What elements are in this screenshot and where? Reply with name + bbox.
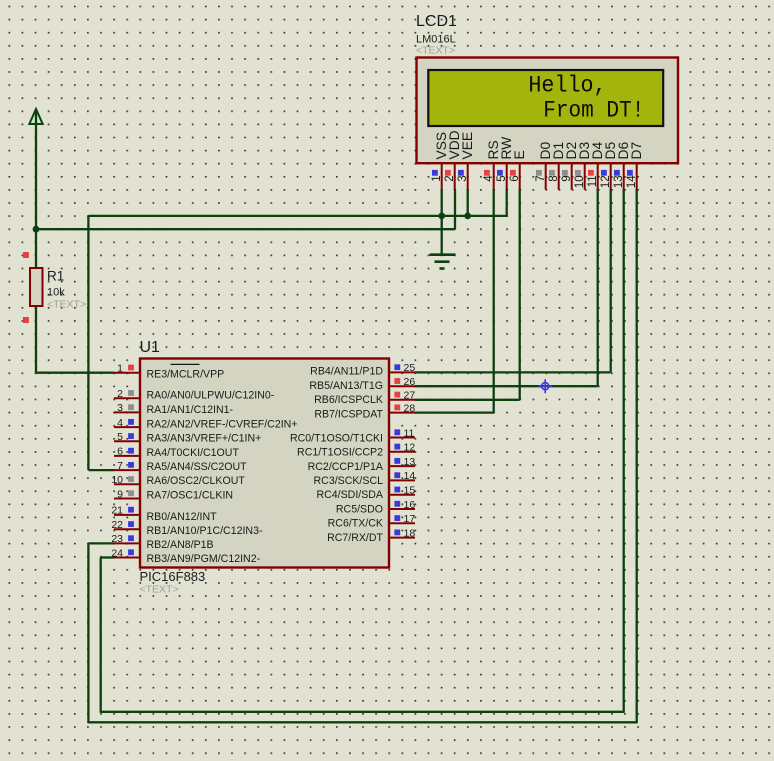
LCD1 pin 4 RS stub [493,163,495,190]
U1 pin 6 state square [128,448,134,454]
svg-text:D7: D7 [629,142,644,160]
svg-text:5: 5 [117,431,123,443]
U1 pin 4 stub (left) [114,426,140,428]
U1 pin 15 state square [394,487,400,493]
LCD1 screen [428,70,663,126]
svg-text:RA2/AN2/VREF-/CVREF/C2IN+: RA2/AN2/VREF-/CVREF/C2IN+ [147,418,298,430]
LCD1 pin 3 VEE stub [467,163,469,190]
svg-text:9: 9 [561,175,573,181]
wire LCD pin3 VEE down to ground rail [467,189,469,216]
svg-text:11: 11 [404,427,415,439]
wire R1 bottom to U1 pin1 (MCLR) [35,306,37,373]
LCD1 pin 9 state square [562,170,568,176]
svg-text:R1: R1 [47,269,64,284]
svg-text:23: 23 [111,533,123,545]
U1 pin 21 stub (left) [114,514,140,516]
svg-text:RC3/SCK/SCL: RC3/SCK/SCL [314,475,384,487]
svg-text:RC5/SDO: RC5/SDO [336,503,383,515]
LCD1 pin 11 state square [588,170,594,176]
U1 pin 11 stub (right) [389,437,415,439]
svg-text:10: 10 [111,474,123,486]
svg-text:12: 12 [600,175,612,188]
ground symbol [430,253,456,256]
LCD1 pin 5 state square [497,170,503,176]
svg-text:<TEXT>: <TEXT> [416,45,455,57]
LCD1 pin 2 VDD stub [454,163,456,190]
U1 pin 5 state square [128,433,134,439]
svg-text:RB0/AN12/INT: RB0/AN12/INT [147,511,218,523]
U1 pin 18 stub (right) [389,537,415,539]
U1 pin 25 stub (right) [389,371,415,373]
cursor crosshair marker [538,379,552,393]
wire LCD pin11 D4 to U1 pin26 RB5 [597,189,599,386]
svg-text:RA4/T0CKI/C1OUT: RA4/T0CKI/C1OUT [147,447,240,459]
wire VCC arrow down to R1 top [35,110,37,268]
svg-text:16: 16 [404,499,416,511]
svg-text:18: 18 [404,527,416,539]
wire LCD pin4 RS to U1 pin28 RB7 [493,189,495,413]
svg-text:26: 26 [404,376,416,388]
svg-text:25: 25 [404,362,416,374]
wire LCD pin14 D7 to U1 pin23 RB2 [636,189,638,722]
svg-text:RB6/ICSPCLK: RB6/ICSPCLK [314,394,383,406]
overline on MCLR of pin1 label [171,363,200,365]
U1 pin 2 stub (left) [114,397,140,399]
node junction VCC/VDD rail [33,226,40,233]
U1 pin 23 state square [128,535,134,541]
wire ground rail [88,215,507,217]
svg-text:RA6/OSC2/CLKOUT: RA6/OSC2/CLKOUT [147,475,246,487]
U1 pin 10 state square [128,476,134,482]
U1 pin 28 state square [394,405,400,411]
wire LCD pin1 VSS down to ground symbol [441,189,443,254]
U1 pin 7 stub (left) [114,469,140,471]
svg-text:RA5/AN4/SS/C2OUT: RA5/AN4/SS/C2OUT [147,461,248,473]
LCD1 pin 7 D0 stub [545,163,547,190]
U1 pin 24 stub (left) [114,557,140,559]
U1 pin 24 state square [128,549,134,555]
svg-text:12: 12 [404,442,416,454]
U1 PIC16F883 body [140,359,389,568]
U1 pin 1 stub (left) [114,372,140,374]
svg-text:RA1/AN1/C12IN1-: RA1/AN1/C12IN1- [147,404,234,416]
svg-text:U1: U1 [140,339,161,356]
svg-text:4: 4 [483,175,495,182]
svg-text:RC0/T1OSO/T1CKI: RC0/T1OSO/T1CKI [290,432,383,444]
U1 pin 12 state square [394,444,400,450]
LCD1 pin 13 D6 stub [623,163,625,190]
LCD1 pin 9 D2 stub [571,163,573,190]
U1 pin 2 state square [128,390,134,396]
svg-text:2: 2 [444,175,456,181]
U1 pin 26 state square [394,378,400,384]
svg-text:PIC16F883: PIC16F883 [140,569,206,584]
svg-text:13: 13 [404,456,416,468]
LCD1 pin 1 state square [432,170,438,176]
svg-text:8: 8 [548,175,560,181]
svg-text:17: 17 [404,513,416,525]
LCD1 pin 12 D5 stub [610,163,612,190]
svg-text:RA7/OSC1/CLKIN: RA7/OSC1/CLKIN [147,489,234,501]
LCD1 pin 13 state square [614,170,620,176]
svg-text:RE3/MCLR/VPP: RE3/MCLR/VPP [147,368,225,380]
svg-text:11: 11 [587,175,599,187]
LCD1 pin 8 state square [549,170,555,176]
LCD1 pin 1 VSS stub [441,163,443,190]
power arrow (VCC) [29,109,42,124]
svg-text:27: 27 [404,390,416,402]
svg-text:22: 22 [111,519,123,531]
U1 pin 3 state square [128,404,134,410]
U1 pin 15 stub (right) [389,494,415,496]
wire LCD pin12 D5 to U1 pin25 RB4 [610,189,612,372]
U1 pin 4 state square [128,419,134,425]
U1 pin 27 state square [394,392,400,398]
U1 pin 12 stub (right) [389,451,415,453]
LCD1 pin 6 E stub [519,163,521,190]
LCD1 component body [417,58,679,164]
U1 pin 23 stub (left) [114,542,140,544]
U1 pin 14 state square [394,472,400,478]
U1 pin 17 state square [394,515,400,521]
LCD1 pin 2 state square [445,170,451,176]
svg-text:7: 7 [117,460,123,472]
svg-text:9: 9 [117,488,123,500]
U1 pin 18 state square [394,530,400,536]
U1 pin 17 stub (right) [389,522,415,524]
svg-text:VEE: VEE [460,132,475,160]
svg-text:RA3/AN3/VREF+/C1IN+: RA3/AN3/VREF+/C1IN+ [147,433,262,445]
svg-text:10k: 10k [47,287,65,299]
U1 pin 9 state square [128,490,134,496]
svg-text:5: 5 [496,175,508,181]
LCD1 pin 14 state square [627,170,633,176]
svg-text:RC4/SDI/SDA: RC4/SDI/SDA [316,489,383,501]
svg-text:6: 6 [117,446,123,458]
U1 pin 22 stub (left) [114,528,140,530]
svg-text:RB4/AN11/P1D: RB4/AN11/P1D [310,366,383,378]
U1 pin 14 stub (right) [389,479,415,481]
U1 pin 13 stub (right) [389,465,415,467]
wire LCD pin6 E to U1 pin27 RB6 [519,189,521,400]
svg-text:1: 1 [431,175,443,181]
LCD1 pin 8 D1 stub [558,163,560,190]
LCD1 pin 3 state square [458,170,464,176]
svg-text:10: 10 [574,175,586,188]
svg-text:4: 4 [117,417,123,429]
U1 pin 6 stub (left) [114,455,140,457]
U1 pin 21 state square [128,507,134,513]
U1 pin 26 stub (right) [389,385,415,387]
LCD1 pin 4 state square [484,170,490,176]
U1 pin 11 state square [394,429,400,435]
svg-text:RC1/T1OSI/CCP2: RC1/T1OSI/CCP2 [297,447,383,459]
LCD1 pin 7 state square [536,170,542,176]
U1 pin 22 state square [128,521,134,527]
U1 pin 27 stub (right) [389,399,415,401]
LCD1 pin 10 state square [575,170,581,176]
svg-text:RB7/ICSPDAT: RB7/ICSPDAT [314,408,383,420]
svg-text:15: 15 [404,485,416,497]
svg-text:RC6/TX/CK: RC6/TX/CK [328,518,383,530]
wire LCD pin13 D6 to U1 pin24 RB3 [623,189,625,712]
U1 pin 16 state square [394,501,400,507]
resistor R1 terminal marker top [23,252,29,258]
U1 pin 7 state square [128,462,134,468]
svg-text:21: 21 [111,505,123,517]
LCD1 pin 11 D4 stub [597,163,599,190]
LCD1 pin 10 D3 stub [584,163,586,190]
U1 pin 10 stub (left) [114,483,140,485]
U1 pin 9 stub (left) [114,498,140,500]
wire VDD rail to LCD pin2 [35,228,455,230]
svg-text:<TEXT>: <TEXT> [140,584,179,596]
wire LCD pin5 RW down to ground rail [506,189,508,216]
svg-text:RB5/AN13/T1G: RB5/AN13/T1G [309,380,383,392]
U1 pin 13 state square [394,458,400,464]
resistor R1 terminal marker bottom [23,317,29,323]
U1 pin 28 stub (right) [389,412,415,414]
U1 pin 16 stub (right) [389,508,415,510]
svg-text:13: 13 [613,175,625,188]
svg-text:3: 3 [117,402,123,414]
wire ground rail to U1 pin7 RA5 [87,216,89,470]
svg-text:LCD1: LCD1 [416,13,457,30]
svg-text:24: 24 [111,547,123,559]
resistor R1 body [30,268,43,306]
U1 pin 25 state square [394,364,400,370]
svg-text:6: 6 [509,175,521,181]
svg-text:3: 3 [457,175,469,181]
svg-text:RB2/AN8/P1B: RB2/AN8/P1B [147,539,214,551]
LCD1 pin 12 state square [601,170,607,176]
U1 pin 3 stub (left) [114,411,140,413]
svg-text:RC2/CCP1/P1A: RC2/CCP1/P1A [308,461,384,473]
svg-text:RB3/AN9/PGM/C12IN2-: RB3/AN9/PGM/C12IN2- [147,553,261,565]
LCD1 pin 14 D7 stub [636,163,638,190]
svg-text:<TEXT>: <TEXT> [47,299,86,311]
svg-text:1: 1 [117,363,123,375]
U1 pin 5 stub (left) [114,440,140,442]
svg-text:From DT!: From DT! [543,97,644,123]
LCD1 pin 5 RW stub [506,163,508,190]
node junction VSS/gnd [438,213,445,220]
svg-text:Hello,: Hello, [528,73,606,99]
svg-text:E: E [512,150,527,159]
U1 pin 1 state square [128,365,134,371]
svg-text:RA0/AN0/ULPWU/C12IN0-: RA0/AN0/ULPWU/C12IN0- [147,390,275,402]
svg-text:RC7/RX/DT: RC7/RX/DT [327,532,383,544]
svg-text:7: 7 [535,175,547,181]
LCD1 pin 6 state square [510,170,516,176]
svg-text:28: 28 [404,402,416,414]
svg-text:14: 14 [404,470,416,482]
svg-text:14: 14 [626,175,638,188]
svg-text:2: 2 [117,388,123,400]
node junction VEE/gnd [464,213,471,220]
svg-text:RB1/AN10/P1C/C12IN3-: RB1/AN10/P1C/C12IN3- [147,525,263,537]
